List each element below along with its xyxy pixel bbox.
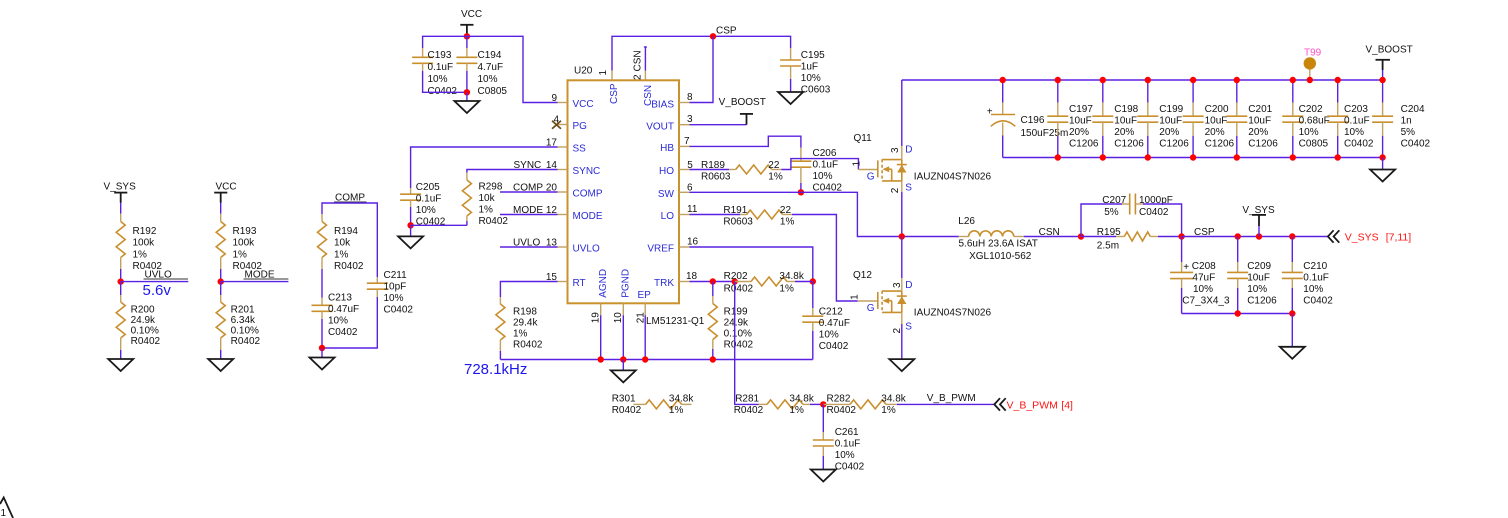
svg-text:0.1uF: 0.1uF: [416, 194, 442, 205]
svg-text:10uF: 10uF: [1205, 116, 1228, 127]
svg-text:C0402: C0402: [1344, 139, 1374, 150]
sheet corner mark: [0, 498, 13, 518]
node R281/R282/C261: [820, 401, 826, 407]
wire to ground: [321, 348, 323, 358]
svg-text:10%: 10%: [835, 450, 855, 461]
pin 7 HB: [660, 136, 690, 154]
svg-text:C0402: C0402: [1303, 295, 1333, 306]
wire to ground: [1291, 314, 1293, 347]
svg-text:5.6uH 23.6A ISAT: 5.6uH 23.6A ISAT: [959, 239, 1038, 250]
svg-text:0.1uF: 0.1uF: [813, 160, 839, 171]
svg-text:C0402: C0402: [1139, 207, 1169, 218]
svg-text:BIAS: BIAS: [651, 99, 674, 110]
svg-text:20%: 20%: [1114, 127, 1134, 138]
svg-text:14: 14: [546, 160, 558, 171]
pin 8 BIAS: [651, 92, 693, 110]
svg-text:C198: C198: [1114, 104, 1138, 115]
capacitor C196 electrolytic: [987, 80, 1069, 158]
wire HB net: [690, 136, 801, 147]
capacitor C199: [1137, 80, 1189, 158]
resistor R195: [1097, 227, 1182, 251]
svg-text:VCC: VCC: [216, 182, 237, 193]
ground: [398, 236, 423, 248]
power flag V_BOOST top right: [1366, 45, 1413, 80]
wire CSN to R195: [1081, 236, 1116, 238]
wire node to R298: [411, 224, 467, 226]
svg-text:C207: C207: [1102, 195, 1126, 206]
wire C205 to node: [410, 207, 412, 225]
wire L26 to CSN node: [1024, 236, 1081, 238]
wire R200 to ground: [120, 350, 122, 359]
svg-text:C197: C197: [1069, 104, 1093, 115]
svg-text:VCC: VCC: [461, 9, 482, 20]
wire C206 to SW: [800, 183, 802, 192]
wire V_BOOST bottom bus: [1003, 157, 1383, 159]
svg-text:C1206: C1206: [1247, 295, 1277, 306]
svg-text:1n: 1n: [1401, 116, 1412, 127]
svg-text:R0402: R0402: [334, 261, 364, 272]
resistor R200: [116, 295, 160, 350]
svg-text:R0402: R0402: [513, 340, 543, 351]
svg-text:R0402: R0402: [231, 336, 261, 347]
capacitor C200: [1183, 80, 1235, 158]
svg-text:XGL1010-562: XGL1010-562: [969, 251, 1032, 262]
wire SS net: [411, 147, 558, 188]
resistor R281: [734, 394, 824, 417]
wire V_SYS cap bottom bus: [1182, 313, 1293, 315]
svg-text:0.68uF: 0.68uF: [1299, 116, 1330, 127]
wire VCC bus: [423, 36, 558, 102]
node TRK/R199: [710, 278, 716, 284]
svg-text:7: 7: [684, 136, 690, 147]
svg-text:12: 12: [546, 205, 558, 216]
svg-text:100k: 100k: [133, 238, 156, 249]
svg-text:CSP: CSP: [716, 26, 737, 37]
svg-text:2: 2: [632, 74, 643, 80]
wire Q12 drain to SW line: [901, 237, 903, 279]
svg-text:D: D: [905, 145, 912, 156]
wire junction to R200: [120, 282, 122, 295]
inductor L26: [958, 216, 1038, 262]
svg-text:R0402: R0402: [612, 405, 642, 416]
node C194 bottom: [464, 89, 470, 95]
resistor R301: [612, 394, 695, 417]
ground: [611, 370, 636, 382]
pin 4 PG no-connect: [552, 114, 587, 132]
svg-text:10uF: 10uF: [1248, 116, 1271, 127]
svg-text:0.10%: 0.10%: [131, 326, 159, 337]
svg-text:9: 9: [551, 93, 557, 104]
svg-text:19: 19: [590, 312, 601, 324]
capacitor C194: [456, 36, 507, 97]
svg-text:V_BOOST: V_BOOST: [1366, 45, 1413, 56]
svg-text:SS: SS: [573, 144, 587, 155]
svg-text:IAUZN04S7N026: IAUZN04S7N026: [914, 307, 992, 318]
resistor R282: [823, 394, 994, 417]
svg-text:2.5m: 2.5m: [1097, 240, 1119, 251]
svg-text:C0402: C0402: [835, 462, 865, 473]
pin 11 LO: [661, 204, 698, 222]
svg-text:0.1uF: 0.1uF: [1344, 116, 1370, 127]
wire Q11 source to SW line: [901, 192, 903, 237]
svg-text:HB: HB: [660, 143, 674, 154]
svg-text:10uF: 10uF: [1069, 116, 1092, 127]
wire SW net: [690, 192, 959, 236]
svg-text:1: 1: [851, 161, 862, 167]
svg-text:C0402: C0402: [428, 86, 458, 97]
svg-text:4: 4: [553, 114, 559, 125]
svg-text:1%: 1%: [881, 405, 896, 416]
node C210 bottom: [1289, 310, 1295, 316]
node C205/R298: [407, 222, 413, 228]
svg-text:0.47uF: 0.47uF: [328, 304, 359, 315]
svg-text:5.6v: 5.6v: [143, 282, 172, 299]
svg-text:COMP: COMP: [573, 189, 603, 200]
svg-text:R282: R282: [827, 394, 851, 405]
svg-text:C199: C199: [1159, 104, 1183, 115]
resistor R202: [724, 271, 813, 295]
svg-text:3: 3: [687, 114, 693, 125]
svg-text:C0603: C0603: [801, 85, 831, 96]
node EP: [642, 356, 648, 362]
svg-text:10k: 10k: [479, 193, 496, 204]
svg-text:20%: 20%: [1248, 127, 1268, 138]
svg-text:R0402: R0402: [827, 405, 857, 416]
svg-text:C196: C196: [1021, 115, 1045, 126]
svg-text:S: S: [905, 322, 912, 333]
wire COMP pin: [500, 191, 558, 193]
svg-text:10%: 10%: [478, 74, 498, 85]
svg-text:C200: C200: [1205, 104, 1229, 115]
node SW/Q11/Q12: [899, 233, 905, 239]
svg-text:24.9k: 24.9k: [131, 315, 156, 326]
svg-text:PGND: PGND: [621, 269, 632, 298]
svg-text:1%: 1%: [768, 171, 783, 182]
svg-text:10uF: 10uF: [1159, 116, 1182, 127]
resistor R201: [216, 295, 260, 350]
svg-text:R298: R298: [479, 181, 503, 192]
node CSN: [1078, 233, 1084, 239]
svg-text:MODE: MODE: [573, 211, 603, 222]
wire MODE pin: [500, 214, 558, 216]
svg-text:0.10%: 0.10%: [231, 326, 259, 337]
wire V_BOOST top bus: [902, 79, 1383, 81]
svg-text:R191: R191: [723, 205, 747, 216]
svg-text:C1206: C1206: [1205, 139, 1235, 150]
svg-text:[4]: [4]: [1061, 400, 1073, 412]
node C210 top: [1289, 233, 1295, 239]
svg-text:CSP: CSP: [609, 83, 620, 104]
resistor R199: [708, 282, 753, 360]
wire TRK to R281 row: [735, 282, 759, 405]
capacitor C206: [790, 148, 842, 194]
wire CSN to C207: [1081, 204, 1122, 237]
svg-text:C195: C195: [801, 50, 825, 61]
svg-text:MODE: MODE: [513, 205, 543, 216]
svg-text:10%: 10%: [416, 205, 436, 216]
port V_B_PWM: [994, 398, 1005, 410]
svg-text:S: S: [905, 183, 912, 194]
wire COMP loop top: [322, 203, 377, 277]
svg-text:R0603: R0603: [701, 171, 731, 182]
pin 10 PGND bottom: [613, 269, 632, 323]
resistor R298: [462, 173, 508, 227]
svg-text:V_SYS: V_SYS: [104, 182, 137, 193]
wire R189 to Q11 gate: [781, 159, 858, 170]
svg-text:10%: 10%: [819, 330, 839, 341]
svg-text:1%: 1%: [779, 284, 794, 295]
svg-text:EP: EP: [638, 290, 652, 301]
wire TRK net: [690, 281, 735, 283]
svg-text:V_B_PWM: V_B_PWM: [1007, 400, 1058, 412]
svg-text:150uF25m: 150uF25m: [1021, 128, 1069, 139]
svg-text:1%: 1%: [669, 405, 684, 416]
resistor R198: [496, 297, 543, 360]
svg-text:VOUT: VOUT: [646, 121, 674, 132]
svg-text:R200: R200: [131, 304, 155, 315]
svg-text:0.1uF: 0.1uF: [428, 62, 454, 73]
svg-text:0.10%: 0.10%: [724, 329, 752, 340]
svg-text:13: 13: [546, 237, 558, 248]
ground: [811, 470, 836, 482]
ground: [1280, 347, 1305, 359]
svg-text:SYNC: SYNC: [573, 166, 601, 177]
node COMP bottom: [319, 345, 325, 351]
svg-text:UVLO: UVLO: [573, 244, 600, 255]
svg-text:18: 18: [686, 271, 698, 282]
wire PGND to ground: [622, 360, 624, 371]
svg-text:SW: SW: [658, 189, 675, 200]
svg-text:10uF: 10uF: [1114, 116, 1137, 127]
svg-text:1: 1: [598, 70, 609, 76]
svg-text:C209: C209: [1247, 261, 1271, 272]
svg-text:728.1kHz: 728.1kHz: [464, 361, 527, 378]
svg-text:C204: C204: [1401, 104, 1425, 115]
svg-text:TRK: TRK: [654, 278, 674, 289]
svg-text:LM51231-Q1: LM51231-Q1: [646, 316, 705, 327]
svg-text:1%: 1%: [789, 405, 804, 416]
node CSP: [1178, 233, 1184, 239]
svg-text:C7_3X4_3: C7_3X4_3: [1182, 295, 1230, 306]
pin 15 RT: [546, 272, 586, 289]
svg-text:C1206: C1206: [1159, 139, 1189, 150]
capacitor C261: [813, 404, 865, 472]
svg-text:D: D: [905, 280, 912, 291]
svg-text:C210: C210: [1303, 261, 1327, 272]
wire VOUT pin 3: [690, 124, 747, 126]
capacitor C207: [1102, 194, 1173, 218]
svg-text:R0402: R0402: [724, 340, 754, 351]
node C209 bottom: [1235, 310, 1241, 316]
svg-text:IAUZN04S7N026: IAUZN04S7N026: [914, 171, 992, 182]
svg-text:6.34k: 6.34k: [231, 315, 256, 326]
svg-text:20%: 20%: [1069, 127, 1089, 138]
svg-text:R0402: R0402: [131, 336, 161, 347]
port V_SYS: [1328, 230, 1339, 242]
node V_SYS flag: [1256, 233, 1262, 239]
wire RT net: [500, 282, 557, 298]
wire AGND bus below IC: [500, 315, 812, 359]
pin 2 CSN top: [632, 47, 654, 106]
svg-text:COMP: COMP: [513, 182, 543, 193]
power flag VCC (left column 2): [214, 182, 236, 203]
svg-text:C1206: C1206: [1114, 139, 1144, 150]
node C204 bottom: [1379, 154, 1385, 160]
svg-text:R198: R198: [513, 307, 537, 318]
svg-text:R194: R194: [334, 226, 358, 237]
pin 20 COMP: [513, 182, 603, 199]
svg-text:10k: 10k: [334, 238, 351, 249]
svg-text:HO: HO: [659, 166, 674, 177]
svg-text:G: G: [867, 303, 875, 314]
pin 12 MODE: [513, 205, 603, 222]
svg-text:+: +: [1183, 262, 1189, 273]
ground: [310, 358, 335, 370]
pin 19 AGND bottom: [590, 269, 609, 323]
power flag VCC (top): [460, 9, 482, 34]
test point T99: [1304, 47, 1322, 80]
resistor R189: [701, 160, 783, 183]
node CSP: [710, 33, 716, 39]
svg-text:V_BOOST: V_BOOST: [719, 97, 766, 108]
wire C195 to ground: [790, 79, 792, 92]
svg-text:C208: C208: [1192, 261, 1216, 272]
svg-text:17: 17: [546, 137, 558, 148]
node V_BOOST: [1379, 77, 1385, 83]
capacitor C202: [1282, 80, 1329, 158]
svg-text:0.1uF: 0.1uF: [1303, 273, 1329, 284]
svg-text:C0402: C0402: [819, 341, 849, 352]
wire Q11 drain to V_BOOST bus: [901, 80, 903, 146]
svg-text:C1206: C1206: [1248, 139, 1278, 150]
svg-text:8: 8: [687, 92, 693, 103]
svg-text:10uF: 10uF: [1247, 273, 1270, 284]
svg-text:10%: 10%: [1303, 284, 1323, 295]
wire R194 to C213: [321, 269, 323, 298]
svg-text:34.8k: 34.8k: [669, 394, 694, 405]
wire VREF net: [690, 247, 813, 282]
capacitor C195: [780, 48, 831, 96]
svg-text:R0402: R0402: [479, 216, 509, 227]
node SW/C206: [798, 189, 804, 195]
capacitor C197: [1047, 80, 1099, 158]
resistor R192: [116, 214, 162, 273]
svg-text:CSN: CSN: [1039, 227, 1060, 238]
svg-text:CSN: CSN: [632, 50, 643, 71]
capacitor C198: [1092, 80, 1144, 158]
svg-text:R281: R281: [735, 394, 759, 405]
pin 16 VREF: [647, 237, 698, 255]
node PGND: [620, 356, 626, 362]
svg-text:PG: PG: [573, 121, 588, 132]
capacitor C212: [802, 282, 850, 360]
capacitor C203: [1327, 80, 1374, 158]
wire CSP net top: [612, 36, 791, 70]
svg-text:24.9k: 24.9k: [724, 318, 749, 329]
pin 17 SS: [546, 137, 586, 154]
wire C213 to bottom node: [321, 319, 323, 348]
svg-text:LO: LO: [661, 211, 675, 222]
capacitor C204: [1372, 80, 1430, 158]
svg-text:C212: C212: [819, 307, 843, 318]
svg-text:R202: R202: [724, 271, 748, 282]
pin 9 VCC: [551, 93, 593, 110]
node T99: [1307, 77, 1313, 83]
svg-text:22: 22: [768, 160, 780, 171]
resistor R193: [216, 214, 262, 273]
svg-text:20%: 20%: [1159, 127, 1179, 138]
capacitor C210: [1282, 237, 1333, 314]
svg-text:20%: 20%: [1205, 127, 1225, 138]
wire V_SYS to R192: [120, 203, 122, 214]
svg-text:R201: R201: [231, 304, 255, 315]
node AGND: [598, 356, 604, 362]
ground: [889, 359, 914, 371]
svg-text:20: 20: [546, 182, 558, 193]
svg-text:G: G: [867, 171, 875, 182]
svg-text:C202: C202: [1299, 104, 1323, 115]
wire to ground: [1382, 158, 1384, 170]
svg-text:C206: C206: [813, 148, 837, 159]
svg-text:V_B_PWM: V_B_PWM: [927, 393, 976, 404]
pin 6 SW: [658, 183, 693, 200]
svg-text:10pF: 10pF: [384, 282, 407, 293]
node C196 top: [1000, 77, 1006, 83]
svg-text:100k: 100k: [233, 238, 256, 249]
resistor R191: [723, 205, 794, 228]
pin 18 TRK: [654, 271, 698, 289]
wire R191 to Q12 gate: [792, 215, 858, 302]
svg-text:C0402: C0402: [384, 305, 414, 316]
pin 3 VOUT: [646, 114, 693, 132]
wire R201 to ground: [220, 350, 222, 359]
svg-text:[7,11]: [7,11]: [1386, 232, 1412, 244]
svg-text:C201: C201: [1248, 104, 1272, 115]
wire V_SYS line: [1182, 236, 1328, 238]
svg-text:L26: L26: [958, 216, 975, 227]
wire node to ground: [410, 225, 412, 236]
svg-text:4.7uF: 4.7uF: [478, 62, 504, 73]
svg-text:C213: C213: [328, 292, 352, 303]
svg-text:10%: 10%: [1247, 284, 1267, 295]
svg-text:34.8k: 34.8k: [789, 394, 814, 405]
transistor Q12: [850, 270, 992, 334]
capacitor C201: [1226, 80, 1278, 158]
svg-text:Q11: Q11: [854, 133, 873, 144]
node R199/AGND: [710, 356, 716, 362]
capacitor C208: [1170, 237, 1230, 314]
svg-text:1%: 1%: [513, 329, 528, 340]
svg-text:+: +: [987, 107, 993, 118]
svg-text:10%: 10%: [813, 171, 833, 182]
capacitor C193: [412, 48, 457, 97]
svg-text:C194: C194: [478, 50, 502, 61]
power flag V_SYS: [1242, 205, 1275, 237]
svg-text:10%: 10%: [1299, 127, 1319, 138]
svg-text:0.47uF: 0.47uF: [819, 318, 850, 329]
svg-text:29.4k: 29.4k: [513, 318, 538, 329]
pin 1 CSP top: [598, 70, 620, 105]
svg-text:R0603: R0603: [723, 216, 753, 227]
svg-text:C0402: C0402: [1401, 139, 1431, 150]
pin 21 EP bottom: [635, 290, 651, 324]
svg-text:AGND: AGND: [598, 269, 609, 298]
capacitor C211: [367, 270, 414, 316]
svg-text:UVLO: UVLO: [513, 237, 540, 248]
svg-text:34.8k: 34.8k: [881, 394, 906, 405]
wire HO net: [690, 169, 730, 171]
svg-text:15: 15: [546, 272, 558, 283]
